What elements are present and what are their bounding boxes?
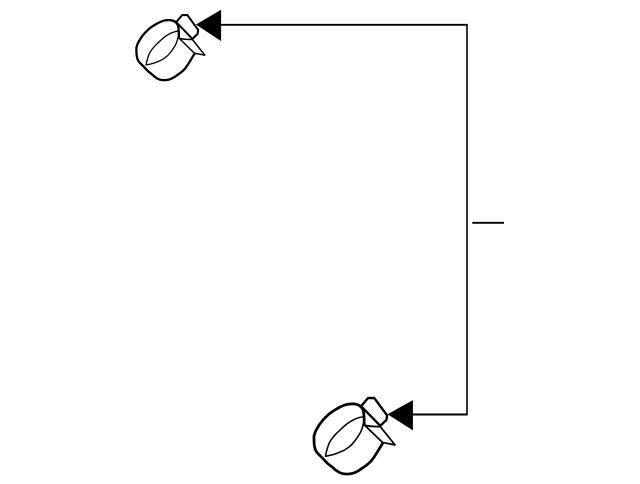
arrow to clamp C2 (388, 400, 413, 430)
label tick mark (472, 222, 504, 224)
wire: top horizontal leader (221, 24, 468, 26)
wire: bottom horizontal leader (413, 414, 468, 416)
wire: right vertical leader (466, 24, 468, 415)
arrow to clamp C1 (196, 10, 221, 41)
clamp C2 (bottom) (314, 398, 395, 474)
clamp C1 (top left) (136, 15, 204, 80)
